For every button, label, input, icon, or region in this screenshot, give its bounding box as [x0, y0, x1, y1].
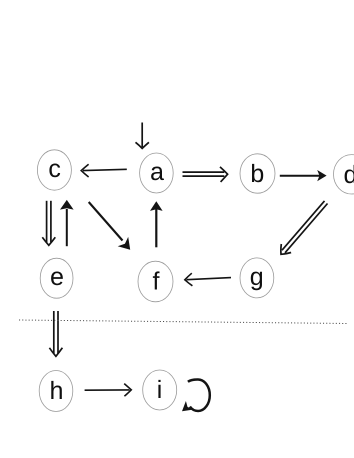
node e [40, 258, 73, 298]
arrow a to c [81, 164, 127, 177]
node b [240, 154, 275, 193]
node a [140, 153, 174, 193]
node g [240, 258, 274, 298]
dotted separator line [19, 320, 347, 324]
arrow f to a [150, 201, 163, 247]
node h [39, 371, 73, 412]
double arrow c to e [42, 201, 55, 246]
node d [334, 155, 354, 194]
arrow e to c [60, 200, 74, 246]
arrow h to i [85, 384, 132, 397]
node c [37, 150, 71, 190]
arrow g to f [185, 273, 231, 286]
self loop on i [182, 379, 210, 411]
double arrow d to g [281, 201, 328, 254]
double arrow e to h [49, 311, 62, 356]
arrow into a from top [136, 123, 149, 149]
arrow b to d [280, 170, 327, 181]
diagonal arrow c to f [89, 202, 131, 250]
node f [138, 261, 173, 302]
node i [143, 370, 177, 410]
double arrow a to b [183, 167, 228, 182]
